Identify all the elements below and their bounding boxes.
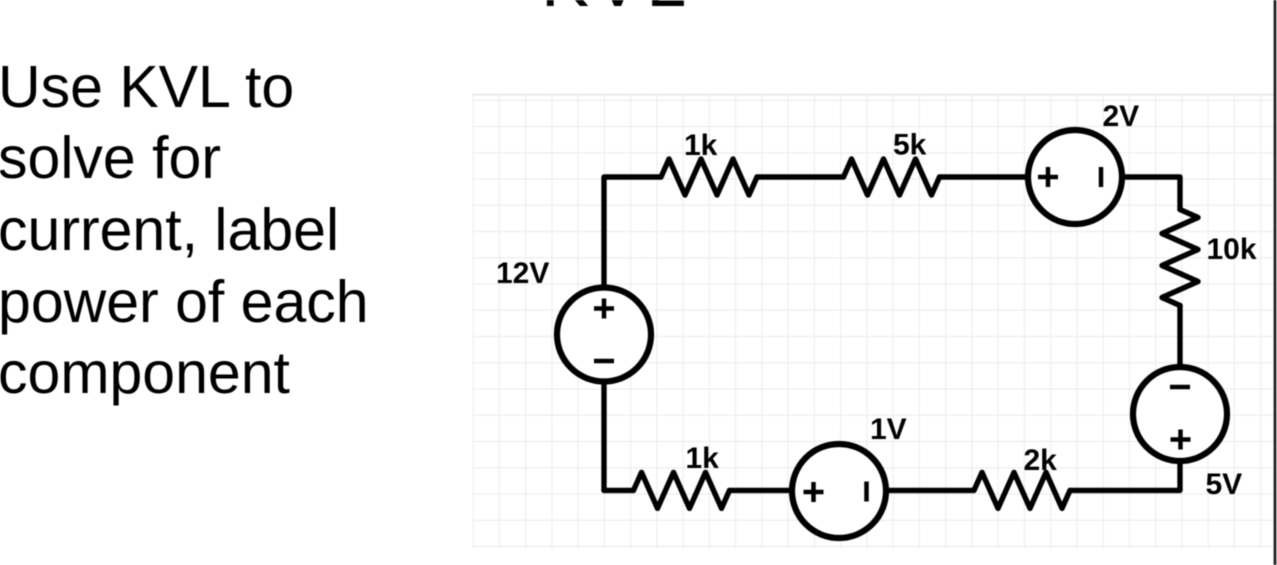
- svg-text:1V: 1V: [870, 413, 907, 446]
- svg-text:10k: 10k: [1207, 233, 1257, 266]
- svg-text:1k: 1k: [686, 442, 720, 475]
- svg-text:5k: 5k: [893, 129, 927, 162]
- svg-text:12V: 12V: [496, 257, 549, 290]
- svg-text:2V: 2V: [1103, 100, 1140, 133]
- svg-text:1k: 1k: [684, 129, 718, 162]
- svg-text:2k: 2k: [1024, 444, 1058, 477]
- svg-text:5V: 5V: [1206, 468, 1243, 501]
